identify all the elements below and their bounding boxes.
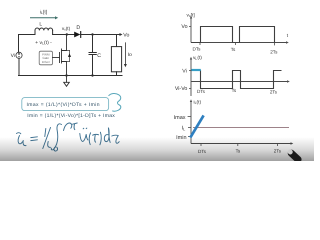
svg-text:2Ts: 2Ts	[270, 49, 278, 54]
svg-text:Vi: Vi	[11, 53, 15, 59]
transistor Q1 (NMOS switch)	[60, 35, 72, 76]
formula box border	[22, 98, 109, 111]
svg-text:Vi: Vi	[182, 69, 187, 75]
svg-text:Imin = (1/L)*(Vi-Vo)*[1-D]Ts +: Imin = (1/L)*(Vi-Vo)*[1-D]Ts + Imax	[27, 113, 115, 119]
W2 Vi-Vo level tick	[189, 88, 191, 90]
svg-text:C: C	[97, 53, 101, 59]
svg-text:D: D	[76, 25, 80, 31]
node: switch source junction dot	[65, 74, 67, 76]
W3 blue ramp segment	[190, 115, 203, 137]
svg-text:IL: IL	[182, 125, 186, 131]
svg-text:Vo: Vo	[123, 33, 129, 39]
handwriting: equals	[31, 136, 38, 139]
svg-text:vL(t): vL(t)	[193, 55, 202, 61]
svg-text:Driver: Driver	[42, 60, 50, 64]
W1 y-axis	[190, 18, 192, 43]
wire: bottom rail	[19, 75, 123, 77]
node: capacitor top junction dot	[91, 33, 93, 35]
resistor load (box)	[111, 35, 121, 76]
W3 y-axis	[190, 101, 192, 144]
Io arrow	[124, 43, 127, 67]
svg-text:vx(t): vx(t)	[62, 26, 71, 32]
wire: top rail inductor to diode	[53, 34, 74, 36]
ground	[64, 76, 70, 87]
wire: left rail bottom	[18, 58, 20, 75]
svg-text:t: t	[287, 33, 289, 39]
svg-text:Io: Io	[128, 52, 132, 58]
PWM gate driver box	[39, 51, 52, 65]
handwriting: lower limit 0	[54, 147, 58, 151]
handwriting: close paren	[100, 132, 101, 145]
handwriting: v with dots	[82, 127, 85, 130]
svg-text:Ts: Ts	[232, 88, 237, 93]
svg-text:Imax: Imax	[174, 115, 186, 121]
capacitor C	[89, 35, 96, 76]
diode D	[74, 32, 81, 38]
W2 square wave trace	[191, 71, 282, 89]
svg-text:DTs: DTs	[197, 89, 206, 94]
svg-text:iL(t): iL(t)	[194, 99, 202, 105]
W2 y-axis	[190, 59, 192, 97]
handwriting: tau 2	[112, 135, 119, 143]
wire: top rail diode to output	[80, 34, 119, 36]
svg-text:Imax = (1/L)*(Vi)*DTs + Imin: Imax = (1/L)*(Vi)*DTs + Imin	[27, 102, 100, 108]
handwriting: subscript L	[23, 141, 26, 146]
svg-text:+ vL(t) -: + vL(t) -	[35, 40, 52, 46]
W3 x-axis	[191, 143, 291, 145]
handwriting: one over L	[45, 129, 46, 137]
W3 ticks	[200, 144, 202, 147]
node: capacitor bottom junction dot	[91, 74, 93, 76]
W2 x-axis	[191, 81, 288, 83]
W1 square wave trace	[191, 27, 275, 43]
node Vo output arrow	[120, 33, 123, 36]
node vx junction dot	[66, 33, 68, 35]
handwriting: i with tilde	[17, 133, 21, 134]
source Vi	[16, 52, 22, 58]
W2 teal highlight on first pulse	[191, 69, 200, 71]
wire: top rail left segment	[19, 35, 36, 53]
W3 red average current line	[193, 127, 289, 129]
W1 x-axis	[191, 42, 287, 44]
handwriting: upper limit DTs	[64, 123, 72, 131]
wire: gate drive	[53, 57, 60, 59]
W1 ticks	[199, 43, 201, 46]
inductor L	[35, 28, 53, 35]
svg-text:DTs: DTs	[193, 47, 202, 52]
svg-text:Ts: Ts	[231, 47, 236, 52]
svg-text:iL[t]: iL[t]	[40, 9, 48, 15]
handwriting: integral sign	[51, 124, 61, 150]
svg-text:L: L	[39, 21, 42, 27]
handwriting: d	[104, 128, 110, 143]
W2 Vi level tick	[189, 70, 191, 72]
annotation squiggle right of box	[109, 93, 121, 111]
handwriting: tau	[93, 133, 99, 136]
svg-text:Vi-Vo: Vi-Vo	[175, 86, 188, 92]
svg-text:2Ts: 2Ts	[270, 90, 278, 95]
svg-text:vx[t]: vx[t]	[187, 12, 195, 18]
handwriting: open paren	[89, 133, 90, 145]
svg-text:Vo: Vo	[181, 24, 187, 30]
wire: inductor current arrow (teal)	[31, 16, 59, 19]
